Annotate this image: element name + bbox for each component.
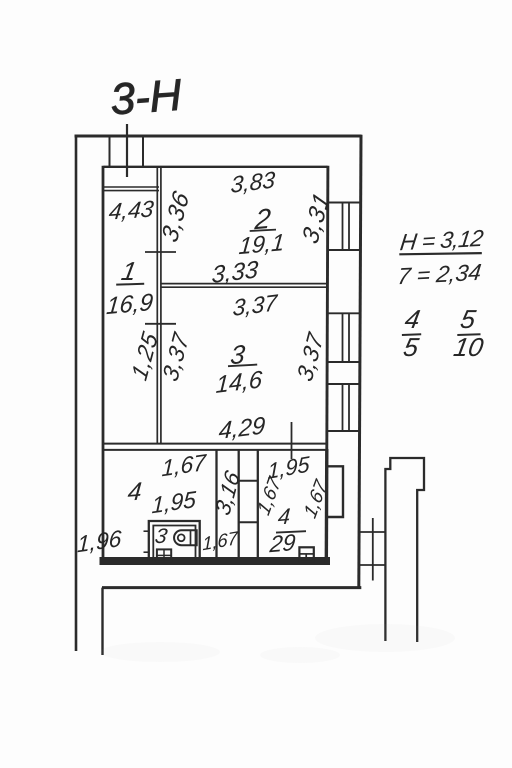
bathroom box outer [149,521,200,561]
bottom right room right wall [325,449,329,565]
bathroom box inner [153,526,195,562]
svg-text:4,43: 4,43 [108,195,155,224]
window 2 mullion b [348,313,350,362]
bottom thick wall [100,557,331,565]
tick through wall at x291 [291,422,293,459]
inner face left [102,166,105,560]
closet divider 2 [239,521,258,523]
svg-text:29: 29 [268,529,297,557]
underline of room 3 number [228,365,257,367]
balcony bump [327,466,343,517]
right room sink divider [299,553,313,555]
window 1 bottom sill [327,249,360,251]
svg-text:7 = 2,34: 7 = 2,34 [396,259,483,289]
outer wall right [359,135,361,588]
tick on wall at 252 [145,251,176,253]
lower boundary [102,586,361,589]
room 1 top strip upper line [104,186,160,188]
outer wall left [75,135,78,651]
sink cross vertical [163,549,165,561]
bathroom door tick upper [144,530,150,532]
svg-text:3,37: 3,37 [232,289,279,321]
right room sink stub [305,554,307,559]
svg-text:4: 4 [403,304,423,334]
underline of room 2 number [250,230,276,231]
wall between room 1 and rooms 2-3, left line [156,167,158,444]
svg-text:5: 5 [458,304,478,334]
wall above bottom section upper line [102,443,327,445]
svg-text:3,37: 3,37 [292,328,328,385]
leader line from title [126,124,128,177]
svg-text:4,29: 4,29 [218,412,266,445]
entrance post left [109,136,111,167]
connector tick lower [359,564,387,566]
svg-text:4: 4 [127,477,143,506]
window 3 bottom sill [327,430,360,432]
svg-text:2: 2 [253,202,273,236]
bathroom door tick lower [144,551,150,553]
entrance post right [142,136,144,167]
wall above bottom section lower line [102,449,327,451]
outer wall top [75,135,362,138]
svg-text:3: 3 [153,525,169,548]
svg-text:3,83: 3,83 [230,166,276,198]
window 1 mullion a [342,203,344,251]
svg-text:10: 10 [451,332,486,362]
window 2 mullion a [342,313,344,362]
window 2 bottom sill [327,361,360,363]
svg-text:3-Н: 3-Н [109,71,183,125]
svg-text:1,96: 1,96 [77,525,122,557]
sink square with cross [157,549,171,561]
adjacent building outline [385,458,424,642]
window 1 top sill [327,202,360,204]
right room sink box [299,547,313,561]
svg-text:5: 5 [401,332,421,362]
inner face top [104,166,328,168]
svg-text:1,95: 1,95 [151,486,196,518]
svg-text:1: 1 [119,256,139,286]
window 2 top sill [327,312,360,314]
svg-text:3,36: 3,36 [157,187,195,247]
svg-text:1,67: 1,67 [202,527,238,555]
window 3 mullion a [342,384,344,431]
wall between room 1 and rooms 2-3, right line [160,167,162,444]
window 1 mullion b [348,203,350,251]
connector tick upper [359,531,387,533]
closet column right line [257,450,259,557]
svg-text:16,9: 16,9 [105,289,154,320]
tick on wall at 324 [145,323,176,325]
fraction line 4/5 [402,333,421,336]
svg-text:1,67: 1,67 [161,449,207,482]
svg-text:Н = 3,12: Н = 3,12 [399,225,486,255]
fraction line 5/10 [457,333,480,336]
wall between room 2 and room 3 upper line [161,283,327,285]
toilet bowl circle [178,534,185,541]
fraction line H/7 [399,253,482,254]
connector line [372,518,374,581]
svg-text:4: 4 [277,504,291,530]
wall room4 right [215,450,217,557]
svg-text:19,1: 19,1 [238,230,286,260]
window 3 top sill [327,383,360,385]
sink cross horizontal [157,554,171,556]
fraction line room 4a [276,531,306,532]
svg-text:14,6: 14,6 [215,366,263,399]
svg-text:3,31: 3,31 [298,188,336,248]
closet divider 1 [239,480,258,482]
svg-text:3,37: 3,37 [158,328,194,385]
wall between room 2 and room 3 lower line [161,286,327,288]
inner face right [327,166,328,450]
lower boundary descender [101,588,103,655]
room 1 top strip lower line [104,190,160,192]
toilet divider [190,530,192,545]
closet column left line [238,450,240,557]
window 3 mullion b [348,384,350,431]
fraction line room 1 [116,283,144,286]
toilet outline [174,530,197,545]
